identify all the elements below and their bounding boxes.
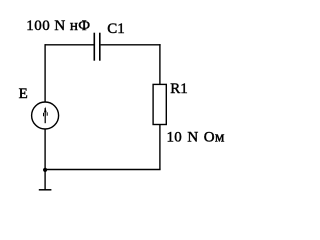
svg-text:100 N нФ: 100 N нФ <box>26 18 90 34</box>
wire top-left horizontal <box>45 44 94 46</box>
svg-text:10 N Ом: 10 N Ом <box>167 129 225 145</box>
wire top-right horizontal <box>101 44 161 46</box>
svg-text:R1: R1 <box>170 81 188 97</box>
svg-text:E: E <box>19 86 28 102</box>
wire right vertical upper <box>159 44 161 84</box>
wire ground stub <box>44 170 46 190</box>
ground <box>39 189 52 191</box>
capacitor C1 <box>94 33 100 61</box>
wire left vertical lower <box>44 129 46 169</box>
resistor R1 <box>153 84 166 124</box>
svg-text:C1: C1 <box>107 21 125 37</box>
junction node <box>43 168 47 172</box>
source E <box>32 102 59 129</box>
wire right vertical lower <box>159 125 161 170</box>
wire bottom horizontal <box>45 169 161 171</box>
wire left vertical upper <box>44 44 46 102</box>
